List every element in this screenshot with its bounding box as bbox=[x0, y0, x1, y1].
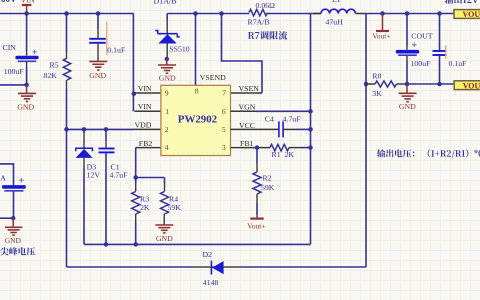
svg-text:VSEN: VSEN bbox=[239, 84, 260, 93]
svg-text:VIN: VIN bbox=[138, 102, 152, 111]
svg-text:GND: GND bbox=[156, 234, 173, 243]
svg-text:R7A/B: R7A/B bbox=[248, 18, 270, 27]
svg-text:SS510: SS510 bbox=[169, 45, 189, 54]
svg-text:GND: GND bbox=[159, 73, 176, 82]
svg-text:VIN: VIN bbox=[21, 0, 35, 5]
svg-text:100V: 100V bbox=[0, 0, 17, 4]
svg-text:R5: R5 bbox=[50, 61, 59, 70]
svg-text:COUT: COUT bbox=[411, 32, 432, 41]
svg-text:Vout+: Vout+ bbox=[247, 222, 265, 231]
svg-text:6: 6 bbox=[222, 107, 226, 116]
svg-text:R2: R2 bbox=[263, 173, 272, 182]
svg-text:CIN: CIN bbox=[3, 43, 17, 52]
svg-text:R1: R1 bbox=[272, 150, 281, 159]
svg-text:VDD: VDD bbox=[135, 120, 152, 129]
svg-text:VGN: VGN bbox=[239, 102, 256, 111]
svg-text:VOUT: VOUT bbox=[463, 81, 480, 90]
svg-text:9: 9 bbox=[165, 89, 169, 98]
svg-text:C4: C4 bbox=[265, 114, 274, 123]
svg-text:R8: R8 bbox=[372, 72, 381, 81]
svg-text:L1: L1 bbox=[332, 0, 341, 4]
svg-text:GND: GND bbox=[17, 103, 34, 112]
svg-text:2K: 2K bbox=[285, 150, 295, 159]
svg-text:47uH: 47uH bbox=[326, 18, 344, 27]
svg-text:5: 5 bbox=[222, 125, 226, 134]
svg-text:4.7uF: 4.7uF bbox=[110, 171, 129, 180]
svg-text:2: 2 bbox=[165, 125, 169, 134]
svg-text:0.1uF: 0.1uF bbox=[449, 59, 468, 68]
svg-text:4.7uF: 4.7uF bbox=[283, 114, 302, 123]
svg-text:PW2902: PW2902 bbox=[178, 114, 217, 126]
svg-text:3K: 3K bbox=[372, 89, 382, 98]
svg-text:82K: 82K bbox=[44, 71, 58, 80]
svg-text:2K: 2K bbox=[140, 203, 150, 212]
svg-text:GND: GND bbox=[399, 102, 416, 111]
svg-text:VCC: VCC bbox=[239, 121, 255, 130]
svg-text:59K: 59K bbox=[261, 183, 275, 192]
svg-text:7: 7 bbox=[222, 89, 226, 98]
svg-text:59K: 59K bbox=[168, 203, 182, 212]
svg-text:4: 4 bbox=[165, 143, 169, 152]
svg-text:FB2: FB2 bbox=[139, 139, 153, 148]
svg-text:D2: D2 bbox=[203, 250, 213, 259]
svg-text:100uF: 100uF bbox=[4, 67, 25, 76]
svg-text:D1A/B: D1A/B bbox=[154, 0, 177, 5]
svg-text:12V: 12V bbox=[87, 171, 101, 180]
svg-text:100uF: 100uF bbox=[411, 59, 432, 68]
svg-text:VIN: VIN bbox=[138, 84, 152, 93]
svg-text:0.1uF: 0.1uF bbox=[107, 46, 126, 55]
svg-text:Vout+: Vout+ bbox=[372, 32, 390, 41]
svg-text:VSEND: VSEND bbox=[200, 73, 226, 82]
svg-text:4148: 4148 bbox=[203, 278, 219, 287]
svg-text:8: 8 bbox=[195, 86, 199, 95]
svg-text:GND: GND bbox=[5, 236, 22, 245]
svg-text:FB1: FB1 bbox=[240, 139, 254, 148]
svg-text:VOUT: VOUT bbox=[463, 10, 480, 19]
svg-text:CA: CA bbox=[0, 173, 6, 182]
svg-text:0.06Ω: 0.06Ω bbox=[256, 1, 276, 10]
svg-text:GND: GND bbox=[89, 71, 106, 80]
svg-text:1: 1 bbox=[165, 107, 169, 116]
svg-text:3: 3 bbox=[222, 143, 226, 152]
